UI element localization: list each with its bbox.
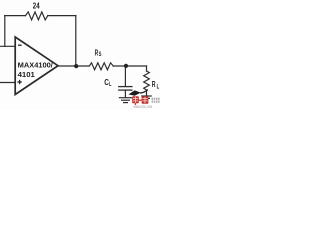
svg-text:S: S (99, 51, 102, 58)
wire feedback top right segment (48, 15, 76, 17)
resistor RL (144, 71, 150, 90)
svg-text:MAX4100/: MAX4100/ (18, 60, 54, 69)
wire inverting input (0, 45, 15, 47)
svg-text:L: L (157, 84, 160, 91)
op-amp plus sign (17, 80, 21, 84)
watermark grey characters (152, 98, 160, 103)
watermark red character 1 (132, 96, 139, 103)
watermark red character 2 (135, 96, 149, 105)
wire feedback top left segment (5, 15, 26, 17)
junction dot RS/CL/RL node (124, 64, 128, 68)
op-amp U1 MAX4100/4101 (15, 37, 58, 95)
ground CL (119, 97, 131, 99)
svg-text:4101: 4101 (18, 70, 36, 79)
watermark logo black cap (128, 89, 148, 96)
wire RL top vertical (146, 66, 148, 71)
wire node to CL (124, 66, 126, 86)
wire feedback left vertical (4, 16, 6, 47)
resistor RS (89, 63, 113, 70)
wire feedback right vertical (75, 16, 77, 67)
wire CL bottom (124, 90, 126, 97)
resistor 24 (26, 12, 48, 20)
capacitor CL (119, 87, 132, 91)
wire op-amp output (58, 65, 89, 67)
svg-text:L: L (109, 81, 112, 88)
svg-text:WWW.DZSC.COM: WWW.DZSC.COM (134, 105, 153, 109)
ground RL (142, 95, 151, 97)
junction dot output node (74, 64, 78, 68)
svg-text:R: R (152, 79, 156, 89)
op-amp minus sign (18, 44, 22, 46)
svg-text:24: 24 (33, 1, 40, 10)
wire RS to node (113, 65, 146, 67)
wire non-inverting input (0, 82, 15, 84)
wire RL bottom (146, 90, 148, 96)
